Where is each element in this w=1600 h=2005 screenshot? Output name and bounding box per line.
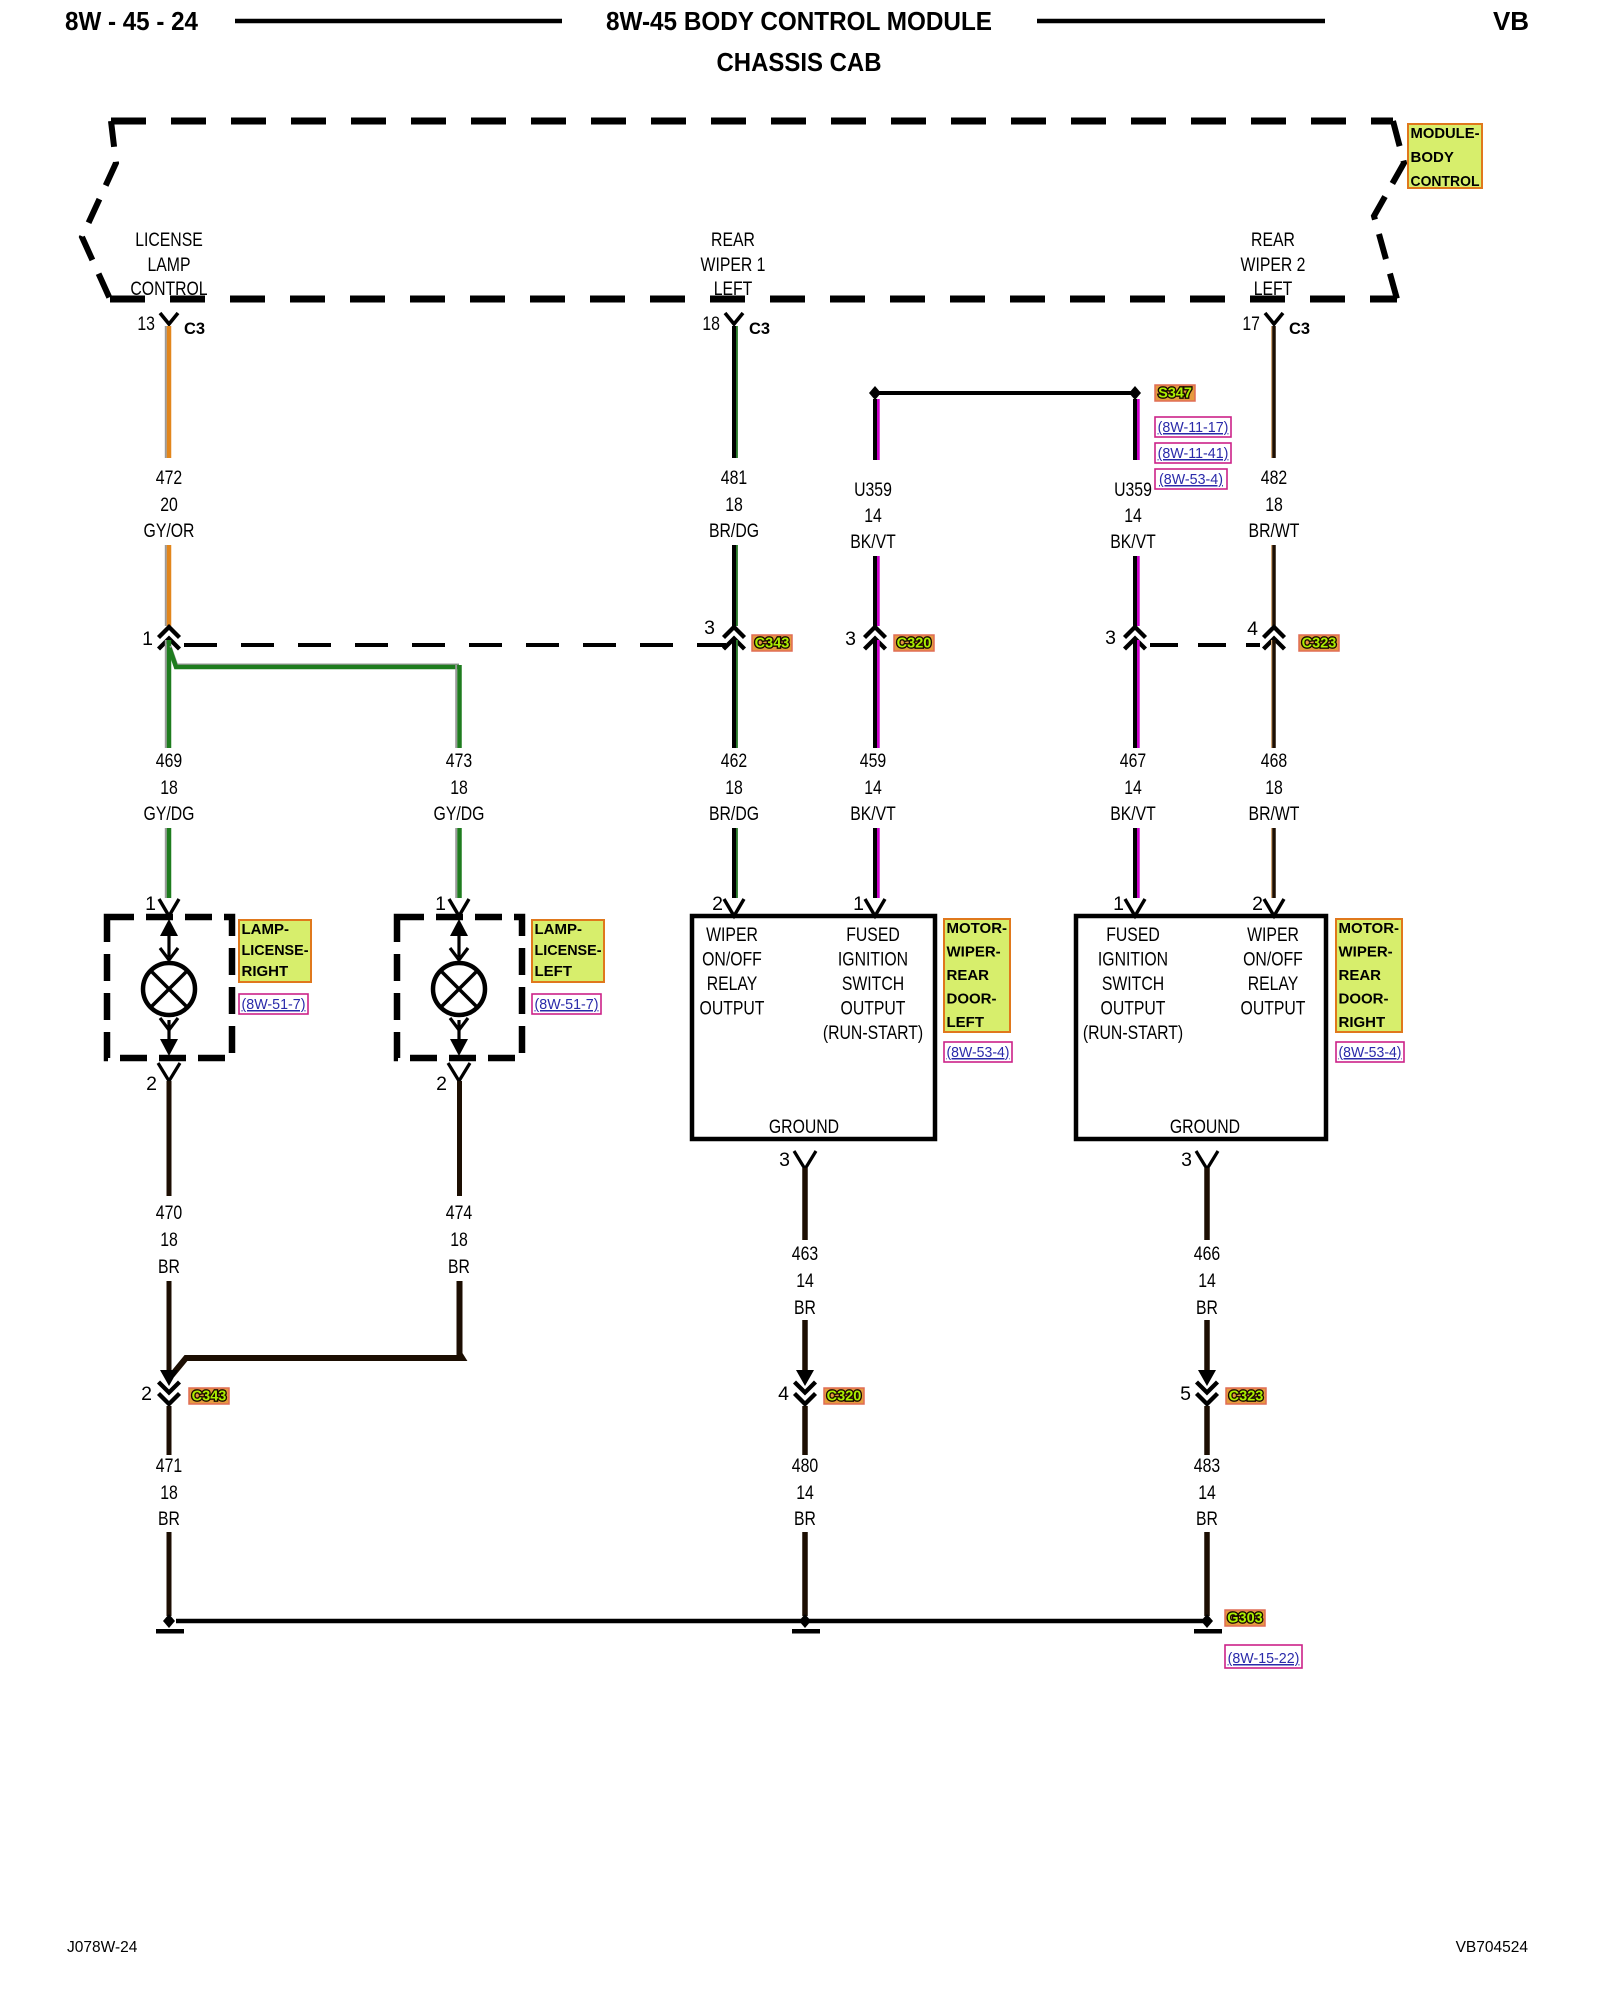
svg-text:(8W-53-4): (8W-53-4) <box>1159 471 1223 488</box>
wire 469 GY/DG <box>166 640 169 898</box>
svg-text:U359: U359 <box>1114 479 1152 501</box>
svg-text:1: 1 <box>853 893 864 915</box>
lamp LAMP-LICENSE-LEFT <box>397 917 522 1058</box>
ground symbol right <box>1194 1629 1222 1634</box>
svg-text:14: 14 <box>1198 1482 1216 1504</box>
header title <box>65 6 1529 77</box>
module body control outline <box>82 121 1404 299</box>
svg-text:(RUN-START): (RUN-START) <box>823 1022 923 1044</box>
svg-text:WIPER: WIPER <box>706 924 758 946</box>
ground symbol left <box>156 1629 184 1634</box>
svg-text:LICENSE-: LICENSE- <box>535 942 602 959</box>
ground bus G303 <box>163 1614 1213 1628</box>
link 8W-53-4 (motor left) <box>944 1042 1012 1062</box>
svg-text:BK/VT: BK/VT <box>1110 803 1156 825</box>
splice S347 <box>869 386 1141 400</box>
wire label 483 <box>1194 1455 1220 1530</box>
svg-text:REAR: REAR <box>947 967 990 984</box>
svg-text:C323: C323 <box>1302 636 1337 652</box>
link 8W-53-4 (motor right) <box>1336 1042 1404 1062</box>
svg-text:IGNITION: IGNITION <box>1098 949 1168 971</box>
svg-text:J078W-24: J078W-24 <box>67 1939 138 1956</box>
motor wiper rear door left pin 2 <box>712 893 744 916</box>
connector C343 pin 1 junction <box>142 627 179 650</box>
svg-text:18: 18 <box>1265 494 1283 516</box>
wire label 466 <box>1194 1243 1220 1319</box>
svg-text:RELAY: RELAY <box>707 973 758 995</box>
svg-text:2: 2 <box>712 893 723 915</box>
svg-text:IGNITION: IGNITION <box>838 949 908 971</box>
svg-text:(8W-53-4): (8W-53-4) <box>1339 1044 1402 1061</box>
svg-text:REAR: REAR <box>1339 967 1382 984</box>
motor wiper rear door right pin 2 <box>1252 893 1284 916</box>
ground symbol middle <box>792 1629 820 1634</box>
wire label 468 <box>1249 750 1300 825</box>
wire 480 BR <box>802 1406 808 1616</box>
svg-text:C343: C343 <box>755 636 790 652</box>
label LAMP-LICENSE-RIGHT <box>239 920 311 982</box>
svg-text:(8W-11-41): (8W-11-41) <box>1158 445 1229 462</box>
connector C323 pin 4 <box>1247 618 1284 649</box>
dashed connector line to C343 <box>184 643 726 647</box>
svg-text:(8W-51-7): (8W-51-7) <box>242 996 306 1013</box>
motor wiper rear door right box <box>1076 916 1326 1139</box>
svg-text:WIPER 1: WIPER 1 <box>701 254 766 276</box>
svg-text:BR: BR <box>1196 1508 1218 1530</box>
svg-text:18: 18 <box>1265 777 1283 799</box>
svg-text:2: 2 <box>146 1073 157 1095</box>
svg-text:13: 13 <box>137 313 155 335</box>
svg-text:GROUND: GROUND <box>769 1116 839 1138</box>
wire 470 BR <box>167 1081 172 1371</box>
link 8W-11-17 <box>1155 417 1231 437</box>
svg-text:2: 2 <box>141 1383 152 1405</box>
svg-text:LAMP: LAMP <box>148 254 191 276</box>
svg-text:14: 14 <box>1124 505 1142 527</box>
svg-text:FUSED: FUSED <box>1106 924 1160 946</box>
svg-text:MODULE-: MODULE- <box>1411 125 1480 142</box>
svg-text:BODY: BODY <box>1411 149 1454 166</box>
svg-text:470: 470 <box>156 1202 183 1224</box>
svg-text:14: 14 <box>796 1482 814 1504</box>
label MOTOR-WIPER-REAR DOOR-RIGHT <box>1336 919 1402 1032</box>
wire 482 BR/WT <box>1272 326 1274 626</box>
svg-text:1: 1 <box>1113 893 1124 915</box>
lamp LAMP-LICENSE-RIGHT <box>107 917 232 1058</box>
wire 481 BR/DG <box>734 326 737 626</box>
svg-text:LEFT: LEFT <box>1254 278 1293 300</box>
svg-text:CHASSIS CAB: CHASSIS CAB <box>717 47 882 77</box>
wire label 481 <box>709 467 759 542</box>
svg-text:459: 459 <box>860 750 886 772</box>
svg-text:BR: BR <box>794 1297 816 1319</box>
svg-text:469: 469 <box>156 750 182 772</box>
svg-text:LEFT: LEFT <box>947 1014 985 1031</box>
svg-text:3: 3 <box>779 1149 790 1171</box>
link 8W-11-41 <box>1155 443 1231 463</box>
svg-text:18: 18 <box>160 1229 178 1251</box>
wire label 471 <box>156 1455 182 1530</box>
svg-text:C3: C3 <box>184 320 205 338</box>
label G303 <box>1225 1610 1265 1627</box>
motor wiper rear door right pin 1 <box>1113 893 1145 916</box>
svg-text:LAMP-: LAMP- <box>242 921 290 938</box>
svg-text:462: 462 <box>721 750 747 772</box>
svg-text:BR/WT: BR/WT <box>1249 803 1300 825</box>
svg-text:OUTPUT: OUTPUT <box>700 998 765 1020</box>
link 8W-53-4 (splice) <box>1155 469 1227 489</box>
svg-text:OUTPUT: OUTPUT <box>1241 998 1306 1020</box>
svg-text:480: 480 <box>792 1455 819 1477</box>
svg-text:BR/WT: BR/WT <box>1249 520 1300 542</box>
svg-text:17: 17 <box>1242 313 1260 335</box>
dashed connector line C323 <box>1150 643 1260 647</box>
svg-text:RELAY: RELAY <box>1248 973 1299 995</box>
connector C3 pin 13 <box>137 313 205 338</box>
svg-text:18: 18 <box>702 313 720 335</box>
wire 468 BR/WT <box>1272 640 1274 898</box>
svg-text:3: 3 <box>1181 1149 1192 1171</box>
svg-text:468: 468 <box>1261 750 1287 772</box>
lamp license left pin 1 <box>435 893 469 916</box>
svg-text:14: 14 <box>796 1270 814 1292</box>
connector C323 pin 3 <box>1105 627 1145 649</box>
wire 459 BK/VT <box>875 640 878 898</box>
wire label U359 a <box>850 479 896 553</box>
svg-text:18: 18 <box>450 777 468 799</box>
svg-text:RIGHT: RIGHT <box>1339 1014 1386 1031</box>
svg-text:ON/OFF: ON/OFF <box>702 949 762 971</box>
label MODULE-BODY CONTROL <box>1408 124 1482 190</box>
svg-text:4: 4 <box>778 1383 789 1405</box>
lamp license left pin 2 <box>436 1063 470 1095</box>
svg-text:LEFT: LEFT <box>714 278 753 300</box>
svg-text:2: 2 <box>1252 893 1263 915</box>
svg-text:(8W-51-7): (8W-51-7) <box>535 996 599 1013</box>
svg-text:8W - 45 - 24: 8W - 45 - 24 <box>65 6 198 36</box>
svg-text:14: 14 <box>1124 777 1142 799</box>
motor wiper rear door left box <box>692 916 935 1139</box>
svg-text:BR: BR <box>448 1256 470 1278</box>
lamp license right pin 2 <box>146 1063 180 1095</box>
svg-text:2: 2 <box>436 1073 447 1095</box>
wire 472 GY/OR <box>166 326 169 626</box>
svg-text:RIGHT: RIGHT <box>242 963 289 980</box>
svg-text:483: 483 <box>1194 1455 1220 1477</box>
label MOTOR-WIPER-REAR DOOR-LEFT <box>944 919 1010 1032</box>
svg-text:18: 18 <box>160 777 178 799</box>
svg-text:DOOR-: DOOR- <box>947 991 997 1008</box>
svg-text:SWITCH: SWITCH <box>842 973 904 995</box>
svg-text:GY/DG: GY/DG <box>144 803 195 825</box>
svg-text:U359: U359 <box>854 479 892 501</box>
wire U359a BK/VT <box>875 399 878 626</box>
svg-text:LAMP-: LAMP- <box>535 921 583 938</box>
connector C3 pin 18 <box>702 313 770 338</box>
svg-text:WIPER: WIPER <box>1247 924 1299 946</box>
svg-text:REAR: REAR <box>1251 229 1295 251</box>
wire label 474 <box>446 1202 473 1278</box>
wire 463 BR <box>802 1168 808 1371</box>
module pin name REAR WIPER 2 LEFT <box>1241 229 1306 300</box>
svg-text:WIPER 2: WIPER 2 <box>1241 254 1306 276</box>
svg-text:BR: BR <box>158 1508 180 1530</box>
svg-text:BR: BR <box>794 1508 816 1530</box>
svg-text:GY/DG: GY/DG <box>434 803 485 825</box>
svg-text:18: 18 <box>725 777 743 799</box>
wire label 459 <box>850 750 896 825</box>
svg-text:SWITCH: SWITCH <box>1102 973 1164 995</box>
svg-text:14: 14 <box>1198 1270 1216 1292</box>
wire 473 GY/DG branch <box>170 646 460 898</box>
svg-text:LEFT: LEFT <box>535 963 573 980</box>
svg-text:481: 481 <box>721 467 747 489</box>
wire U359b BK/VT <box>1135 399 1138 626</box>
svg-text:GY/OR: GY/OR <box>144 520 195 542</box>
svg-text:GROUND: GROUND <box>1170 1116 1240 1138</box>
svg-text:C3: C3 <box>749 320 770 338</box>
svg-text:VB704524: VB704524 <box>1456 1939 1529 1956</box>
wire label 469 <box>144 750 195 825</box>
svg-text:BK/VT: BK/VT <box>850 803 896 825</box>
svg-text:BK/VT: BK/VT <box>850 531 896 553</box>
svg-text:BR/DG: BR/DG <box>709 803 759 825</box>
wire 467 BK/VT <box>1135 640 1138 898</box>
svg-text:LICENSE-: LICENSE- <box>242 942 309 959</box>
svg-text:8W-45 BODY CONTROL MODULE: 8W-45 BODY CONTROL MODULE <box>606 6 992 36</box>
svg-text:474: 474 <box>446 1202 473 1224</box>
svg-text:C343: C343 <box>192 1389 227 1405</box>
connector C323 pin 5 <box>1180 1370 1217 1405</box>
svg-text:20: 20 <box>160 494 178 516</box>
link 8W-51-7 (left) <box>532 994 601 1014</box>
wire 483 BR <box>1204 1406 1210 1616</box>
svg-text:(8W-11-17): (8W-11-17) <box>1158 419 1229 436</box>
connector C343 pin 3 <box>704 617 744 649</box>
svg-text:OUTPUT: OUTPUT <box>1101 998 1166 1020</box>
svg-text:467: 467 <box>1120 750 1146 772</box>
motor ground pin 3 (C323) <box>1181 1149 1218 1171</box>
wire label U359 b <box>1110 479 1156 553</box>
module pin name LICENSE LAMP CONTROL <box>130 229 207 300</box>
svg-text:MOTOR-: MOTOR- <box>1339 920 1400 937</box>
svg-text:18: 18 <box>160 1482 178 1504</box>
svg-text:MOTOR-: MOTOR- <box>947 920 1008 937</box>
svg-text:14: 14 <box>864 505 882 527</box>
wire label 462 <box>709 750 759 825</box>
label LAMP-LICENSE-LEFT <box>532 920 604 982</box>
svg-text:463: 463 <box>792 1243 818 1265</box>
motor wiper rear door left pin 1 <box>853 893 885 916</box>
svg-text:WIPER-: WIPER- <box>1339 944 1393 961</box>
svg-text:ON/OFF: ON/OFF <box>1243 949 1303 971</box>
svg-text:466: 466 <box>1194 1243 1220 1265</box>
svg-text:14: 14 <box>864 777 882 799</box>
svg-text:LICENSE: LICENSE <box>135 229 203 251</box>
svg-text:BR: BR <box>158 1256 180 1278</box>
wire 462 BR/DG <box>734 640 737 898</box>
connector C320 pin 3 <box>845 627 885 650</box>
svg-text:5: 5 <box>1180 1383 1191 1405</box>
connector C343 pin 2 <box>141 1370 179 1405</box>
svg-text:FUSED: FUSED <box>846 924 900 946</box>
svg-text:C320: C320 <box>897 636 932 652</box>
svg-text:REAR: REAR <box>711 229 755 251</box>
svg-text:3: 3 <box>1105 627 1116 649</box>
svg-text:1: 1 <box>145 893 156 915</box>
wire label 482 <box>1249 467 1300 542</box>
wire 466 BR <box>1204 1168 1210 1371</box>
connector C3 pin 17 <box>1242 313 1310 338</box>
connector C320 pin 4 <box>778 1370 815 1405</box>
wire label 480 <box>792 1455 819 1530</box>
svg-text:3: 3 <box>845 628 856 650</box>
wire label 467 <box>1110 750 1156 825</box>
svg-text:18: 18 <box>450 1229 468 1251</box>
svg-text:(8W-53-4): (8W-53-4) <box>947 1044 1010 1061</box>
svg-text:CONTROL: CONTROL <box>1411 173 1480 190</box>
svg-text:BR/DG: BR/DG <box>709 520 759 542</box>
module pin name REAR WIPER 1 LEFT <box>701 229 766 300</box>
svg-text:473: 473 <box>446 750 472 772</box>
svg-text:BR: BR <box>1196 1297 1218 1319</box>
link 8W-15-22 <box>1225 1645 1302 1668</box>
link 8W-51-7 (right) <box>239 994 308 1014</box>
svg-text:482: 482 <box>1261 467 1287 489</box>
wire label 472 <box>144 467 195 542</box>
svg-text:VB: VB <box>1493 6 1529 36</box>
svg-text:1: 1 <box>435 893 446 915</box>
svg-text:C3: C3 <box>1289 320 1310 338</box>
svg-text:472: 472 <box>156 467 182 489</box>
svg-text:18: 18 <box>725 494 743 516</box>
svg-text:C323: C323 <box>1229 1389 1264 1405</box>
wire label 470 <box>156 1202 183 1278</box>
svg-text:G303: G303 <box>1227 1611 1262 1627</box>
svg-text:OUTPUT: OUTPUT <box>841 998 906 1020</box>
wire label 463 <box>792 1243 818 1319</box>
wire 474 BR <box>172 1081 462 1375</box>
svg-text:WIPER-: WIPER- <box>947 944 1001 961</box>
svg-text:CONTROL: CONTROL <box>130 278 207 300</box>
svg-text:1: 1 <box>142 628 153 650</box>
lamp license right pin 1 <box>145 893 179 916</box>
motor ground pin 3 (C320) <box>779 1149 816 1171</box>
svg-text:(RUN-START): (RUN-START) <box>1083 1022 1183 1044</box>
svg-text:C320: C320 <box>827 1389 862 1405</box>
svg-text:(8W-15-22): (8W-15-22) <box>1228 1650 1300 1667</box>
svg-text:S347: S347 <box>1158 386 1192 402</box>
svg-text:BK/VT: BK/VT <box>1110 531 1156 553</box>
svg-text:3: 3 <box>704 617 715 639</box>
svg-text:471: 471 <box>156 1455 182 1477</box>
wire label 473 <box>434 750 485 825</box>
svg-text:DOOR-: DOOR- <box>1339 991 1389 1008</box>
label S347 <box>1155 385 1195 402</box>
svg-text:4: 4 <box>1247 618 1258 640</box>
wire 471 BR <box>167 1406 172 1616</box>
